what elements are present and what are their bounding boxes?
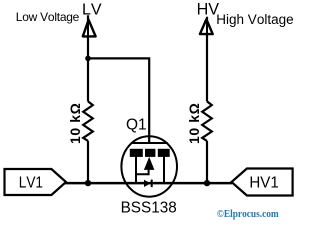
- svg-text:©Elprocus.com: ©Elprocus.com: [217, 208, 279, 220]
- svg-text:10 kΩ: 10 kΩ: [67, 103, 83, 144]
- svg-text:HV1: HV1: [249, 175, 278, 192]
- svg-text:LV: LV: [82, 1, 102, 18]
- svg-text:10 kΩ: 10 kΩ: [186, 103, 202, 144]
- svg-text:LV1: LV1: [19, 175, 43, 192]
- svg-text:Low Voltage: Low Voltage: [16, 10, 80, 24]
- svg-text:Q1: Q1: [126, 116, 147, 133]
- svg-text:BSS138: BSS138: [121, 200, 177, 217]
- svg-text:High Voltage: High Voltage: [216, 12, 293, 27]
